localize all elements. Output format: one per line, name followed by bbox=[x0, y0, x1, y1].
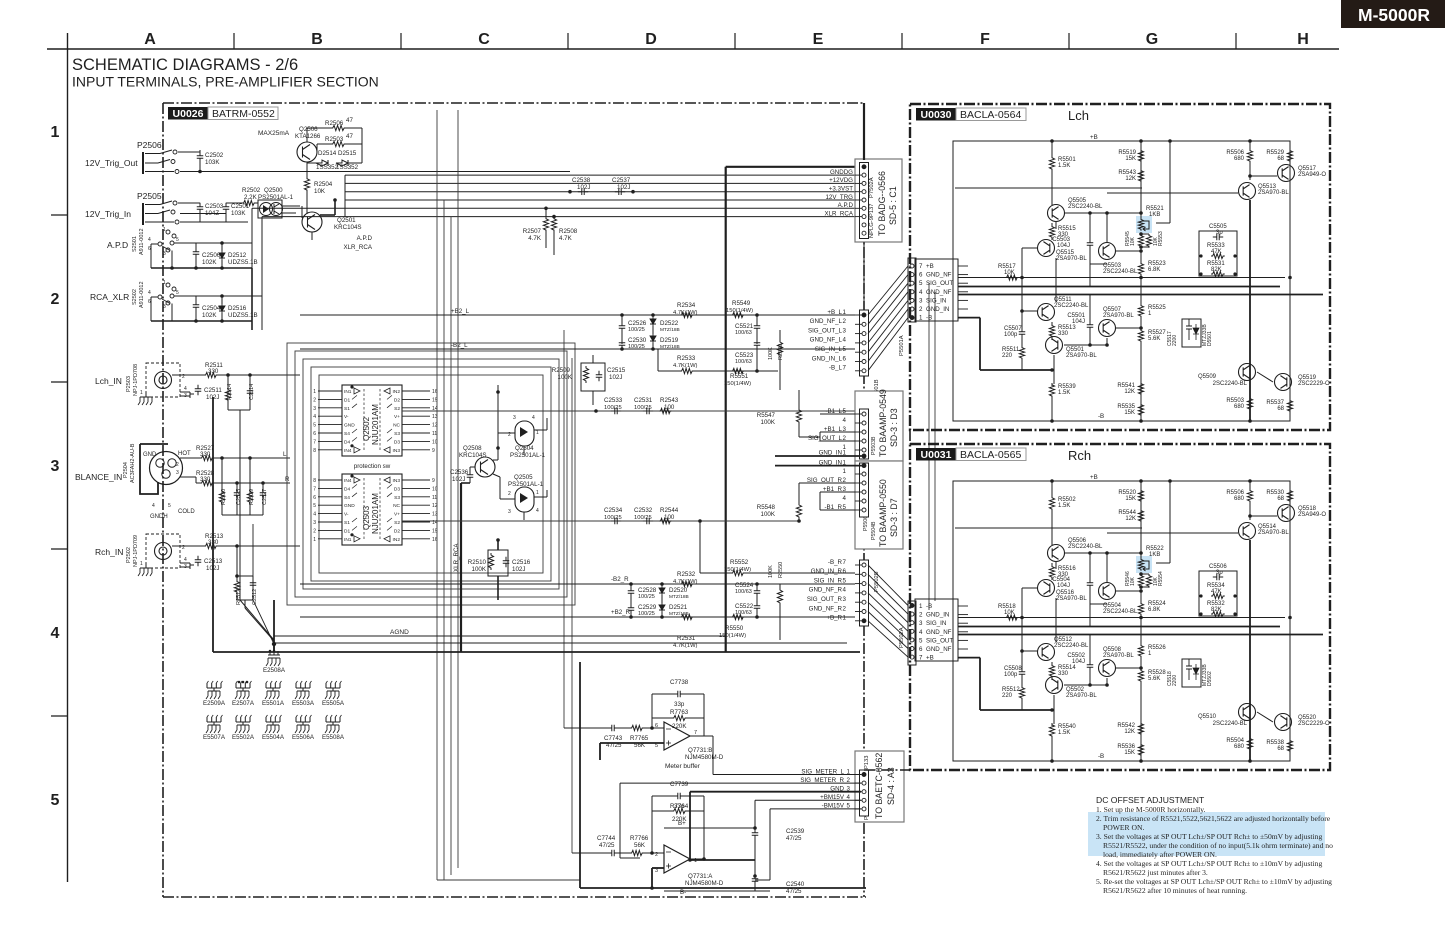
svg-text:5. Re-set the voltages at SP O: 5. Re-set the voltages at SP OUT Lch±/SP… bbox=[1096, 877, 1332, 886]
svg-text:15K: 15K bbox=[1124, 410, 1135, 416]
svg-text:+3.3VST: +3.3VST bbox=[829, 186, 853, 193]
wire sig lines across block bbox=[955, 527, 1142, 529]
svg-text:-B_R: -B_R bbox=[828, 559, 843, 566]
svg-text:1.5K: 1.5K bbox=[1058, 390, 1070, 396]
resistor R5525 1 bbox=[1138, 304, 1143, 318]
svg-text:150(1/4W): 150(1/4W) bbox=[726, 308, 753, 314]
transistor Q5513 2SA970-BL bbox=[1239, 183, 1256, 200]
transistor Q5507 2SA970-BL bbox=[1099, 320, 1116, 337]
resistor R5524 6.8K bbox=[1138, 602, 1143, 616]
svg-text:P7502A: P7502A bbox=[869, 177, 875, 198]
svg-text:2SC2240-BL: 2SC2240-BL bbox=[1054, 303, 1089, 309]
svg-text:9: 9 bbox=[432, 478, 435, 484]
ground E5507A bbox=[207, 717, 221, 722]
transistor Q5503 2SC2240-BL bbox=[1099, 243, 1116, 260]
board U0031 label bbox=[916, 448, 956, 461]
svg-text:12K: 12K bbox=[1125, 516, 1136, 522]
svg-text:3: 3 bbox=[843, 327, 847, 334]
svg-text:2: 2 bbox=[919, 612, 923, 619]
svg-text:100/25: 100/25 bbox=[638, 611, 655, 617]
svg-text:S3: S3 bbox=[394, 495, 400, 501]
svg-text:C2506: C2506 bbox=[202, 252, 221, 259]
svg-text:2SA970-BL: 2SA970-BL bbox=[1103, 313, 1134, 319]
svg-text:C2537: C2537 bbox=[612, 177, 631, 184]
svg-text:C2526: C2526 bbox=[628, 320, 647, 327]
svg-text:L: L bbox=[283, 451, 287, 458]
svg-text:Q2501: Q2501 bbox=[337, 217, 356, 224]
svg-text:C2534: C2534 bbox=[604, 507, 623, 514]
svg-text:F: F bbox=[980, 31, 990, 48]
svg-text:10K: 10K bbox=[314, 188, 326, 195]
svg-text:GND: GND bbox=[344, 423, 355, 429]
wire L-path y411 bbox=[402, 410, 855, 412]
svg-text:NJM4580M-D: NJM4580M-D bbox=[685, 880, 724, 887]
resistor R5506 680 bbox=[1247, 489, 1252, 503]
svg-text:6: 6 bbox=[313, 431, 316, 437]
svg-text:D2522: D2522 bbox=[660, 320, 679, 327]
svg-text:104Z: 104Z bbox=[205, 210, 219, 217]
svg-text:D1: D1 bbox=[344, 397, 350, 403]
border frame top line bbox=[47, 48, 1339, 50]
svg-text:220: 220 bbox=[1002, 693, 1013, 699]
svg-text:2: 2 bbox=[508, 491, 511, 497]
svg-text:33p: 33p bbox=[674, 701, 685, 708]
svg-text:2SC2240-BL: 2SC2240-BL bbox=[1213, 381, 1248, 387]
svg-text:3: 3 bbox=[919, 620, 923, 627]
heavy wire xlr bus bbox=[460, 483, 462, 652]
diode D2516 UDZS5.1B bbox=[219, 304, 225, 313]
svg-text:6: 6 bbox=[919, 272, 923, 279]
border frame left line bbox=[67, 33, 69, 882]
svg-text:R2533: R2533 bbox=[677, 355, 696, 362]
resistor R5501 1.5K bbox=[1049, 156, 1054, 171]
svg-text:2SC2229-O: 2SC2229-O bbox=[1298, 721, 1330, 727]
svg-text:IN4: IN4 bbox=[344, 478, 352, 484]
svg-text:12K: 12K bbox=[1124, 389, 1135, 395]
svg-text:RCA_XLR: RCA_XLR bbox=[90, 292, 129, 302]
svg-text:103K: 103K bbox=[205, 159, 220, 166]
wire rca_xlr gnd bbox=[151, 320, 252, 322]
svg-text:220K: 220K bbox=[672, 723, 687, 730]
svg-text:GNDDG: GNDDG bbox=[830, 169, 853, 176]
svg-text:E5503A: E5503A bbox=[292, 700, 315, 707]
transistor Q5520 2SC2229-O bbox=[1275, 714, 1292, 731]
transistor Q5512 2SC2240-BL bbox=[1038, 644, 1055, 661]
svg-text:-B_L: -B_L bbox=[829, 365, 843, 372]
svg-text:1: 1 bbox=[140, 561, 143, 567]
svg-text:R7766: R7766 bbox=[630, 835, 649, 842]
svg-text:2SC2240-BL: 2SC2240-BL bbox=[1103, 269, 1138, 275]
svg-text:R5547: R5547 bbox=[757, 412, 776, 419]
svg-text:R2504: R2504 bbox=[314, 181, 333, 188]
svg-text:+B: +B bbox=[1090, 474, 1098, 481]
svg-text:100: 100 bbox=[664, 404, 675, 411]
svg-text:4: 4 bbox=[184, 386, 187, 392]
wire GND/BM15V bbox=[690, 791, 861, 793]
svg-text:R2508: R2508 bbox=[559, 228, 578, 235]
resistor R5513 330 bbox=[1049, 324, 1054, 338]
svg-text:5: 5 bbox=[843, 577, 847, 584]
svg-text:R2502: R2502 bbox=[242, 187, 261, 194]
svg-text:2SA949-O: 2SA949-O bbox=[1298, 172, 1326, 178]
svg-text:GND: GND bbox=[143, 452, 157, 458]
resistor R5540 1.5K bbox=[1049, 723, 1054, 738]
svg-text:2SC2240-BL: 2SC2240-BL bbox=[1068, 544, 1103, 550]
svg-text:GND_NF: GND_NF bbox=[926, 629, 952, 636]
wires protection center bbox=[497, 385, 499, 448]
svg-text:104J: 104J bbox=[1057, 583, 1070, 589]
svg-text:2: 2 bbox=[176, 462, 179, 468]
svg-text:6.8K: 6.8K bbox=[1148, 607, 1160, 613]
svg-text:B: B bbox=[311, 31, 323, 48]
svg-text:100K: 100K bbox=[768, 565, 774, 578]
svg-text:+B: +B bbox=[926, 263, 934, 270]
svg-text:UDZS5.1B: UDZS5.1B bbox=[228, 312, 258, 319]
resistor R5516 330 bbox=[1049, 565, 1054, 579]
svg-text:P5504B: P5504B bbox=[871, 521, 877, 540]
svg-text:7: 7 bbox=[313, 439, 316, 445]
wire apd gnd bbox=[151, 267, 252, 269]
svg-text:GND_IN_L: GND_IN_L bbox=[812, 355, 843, 362]
svg-text:102J: 102J bbox=[512, 566, 525, 573]
svg-text:-B2_L: -B2_L bbox=[451, 342, 468, 349]
svg-text:100/25: 100/25 bbox=[604, 405, 622, 411]
svg-text:TO BAETC-0562: TO BAETC-0562 bbox=[874, 753, 884, 819]
ground E2509A bbox=[207, 683, 221, 688]
svg-text:5.6K: 5.6K bbox=[1148, 336, 1160, 342]
svg-text:5: 5 bbox=[655, 743, 658, 749]
connector group TO BAAMP-0550 SD-3:D7 bbox=[855, 461, 903, 549]
svg-text:R2544: R2544 bbox=[660, 507, 679, 514]
svg-text:R5621/R5622 just minutes after: R5621/R5622 just minutes after 3. bbox=[1103, 868, 1208, 877]
svg-text:GND_IN_R: GND_IN_R bbox=[811, 568, 843, 575]
svg-text:2SA970-BL: 2SA970-BL bbox=[1066, 693, 1097, 699]
board U0030 label bbox=[916, 108, 956, 121]
svg-text:E5507A: E5507A bbox=[203, 734, 226, 741]
svg-text:XLR_RCA: XLR_RCA bbox=[453, 543, 460, 572]
svg-text:DC OFFSET ADJUSTMENT: DC OFFSET ADJUSTMENT bbox=[1096, 795, 1205, 805]
svg-text:AGND: AGND bbox=[390, 629, 409, 636]
svg-text:3: 3 bbox=[919, 297, 923, 304]
zener diode D5502 MTZJ33B bbox=[1193, 664, 1199, 680]
svg-text:2SA949-O: 2SA949-O bbox=[1298, 512, 1326, 518]
svg-text:2: 2 bbox=[843, 605, 847, 612]
svg-text:Q5510: Q5510 bbox=[1198, 714, 1217, 720]
svg-text:5: 5 bbox=[919, 280, 923, 287]
svg-text:MTZ/18B: MTZ/18B bbox=[660, 327, 680, 333]
svg-text:C5523: C5523 bbox=[735, 352, 754, 359]
svg-text:1: 1 bbox=[536, 430, 539, 436]
svg-text:+B2_L: +B2_L bbox=[451, 308, 470, 315]
svg-text:D4: D4 bbox=[344, 439, 350, 445]
svg-text:D2: D2 bbox=[394, 397, 400, 403]
trimmer R5521 1KB (highlighted) bbox=[1136, 216, 1152, 233]
ground at Rch_IN bbox=[145, 563, 147, 568]
board U0026 label bbox=[168, 107, 208, 120]
svg-text:4: 4 bbox=[51, 625, 60, 642]
svg-text:E5508A: E5508A bbox=[322, 734, 345, 741]
svg-text:SIG_IN_R: SIG_IN_R bbox=[814, 577, 843, 584]
svg-text:load, immediately after POWER: load, immediately after POWER ON. bbox=[1103, 850, 1217, 859]
ground E5502A bbox=[236, 717, 250, 722]
svg-text:R5545: R5545 bbox=[1125, 231, 1131, 246]
svg-text:SIG_OUT_R: SIG_OUT_R bbox=[807, 596, 843, 603]
svg-text:1: 1 bbox=[163, 280, 166, 286]
wire diagonals P5502B to P5502A bbox=[868, 565, 908, 606]
svg-text:IN2: IN2 bbox=[393, 537, 401, 543]
ground E5508A bbox=[326, 717, 340, 722]
svg-text:2SA970-BL: 2SA970-BL bbox=[1056, 596, 1087, 602]
svg-text:KTA1266: KTA1266 bbox=[295, 133, 321, 140]
resistor R5529 68 bbox=[1287, 149, 1292, 163]
svg-text:TO BAAMP-0550: TO BAAMP-0550 bbox=[878, 479, 888, 547]
resistor R5514 330 bbox=[1049, 664, 1054, 678]
svg-text:NC: NC bbox=[393, 423, 400, 429]
svg-text:5: 5 bbox=[51, 792, 60, 809]
wire +in A bbox=[652, 867, 664, 869]
svg-text:5: 5 bbox=[176, 237, 179, 243]
wire diagonals P5501B to P5501A bbox=[868, 266, 908, 315]
svg-text:TO BADG--0566: TO BADG--0566 bbox=[877, 171, 887, 236]
wire routing loops around NJU201AM ICs bbox=[287, 343, 575, 605]
svg-text:SD-3 : D7: SD-3 : D7 bbox=[889, 498, 899, 537]
svg-text:2: 2 bbox=[313, 528, 316, 534]
svg-text:P5502A: P5502A bbox=[899, 627, 905, 648]
svg-text:GND_NF_R: GND_NF_R bbox=[809, 587, 843, 594]
svg-text:47: 47 bbox=[346, 133, 353, 140]
svg-text:+B_R: +B_R bbox=[826, 615, 842, 622]
svg-text:7: 7 bbox=[694, 730, 697, 736]
svg-text:NC: NC bbox=[393, 503, 400, 509]
wire +in bbox=[600, 742, 664, 744]
wire trig in bbox=[178, 202, 200, 204]
svg-text:V-: V- bbox=[344, 414, 349, 420]
transistor Q5516 2SA970-BL bbox=[1038, 580, 1055, 597]
svg-text:-B: -B bbox=[1098, 753, 1104, 760]
wire opamp B out bbox=[690, 735, 713, 737]
wire bus GNDDG..XLR_RCA bbox=[345, 174, 855, 176]
svg-text:56K: 56K bbox=[634, 842, 646, 849]
svg-text:S2: S2 bbox=[394, 406, 400, 412]
ground E5503A bbox=[296, 683, 310, 688]
svg-text:104J: 104J bbox=[1057, 243, 1070, 249]
ground E5506A bbox=[296, 717, 310, 722]
svg-text:C5518: C5518 bbox=[1167, 671, 1173, 686]
connector P5501A pin labels bbox=[915, 259, 958, 321]
capacitor C2501 103K bbox=[223, 203, 230, 213]
ground E5501A bbox=[266, 683, 280, 688]
svg-text:S2502: S2502 bbox=[132, 289, 138, 305]
svg-text:GND_NF_L: GND_NF_L bbox=[810, 318, 843, 325]
svg-text:9: 9 bbox=[432, 448, 435, 454]
svg-text:5: 5 bbox=[168, 503, 171, 509]
svg-text:SIG_OUT_L: SIG_OUT_L bbox=[808, 327, 843, 334]
wire internals bbox=[1051, 170, 1053, 205]
svg-text:BATRM-0552: BATRM-0552 bbox=[212, 108, 275, 120]
svg-text:GND_NF_R: GND_NF_R bbox=[809, 605, 843, 612]
svg-text:IN3: IN3 bbox=[393, 448, 401, 454]
svg-text:D2514: D2514 bbox=[318, 150, 337, 157]
svg-text:2SC2240-BL: 2SC2240-BL bbox=[1068, 204, 1103, 210]
svg-text:47: 47 bbox=[346, 117, 353, 124]
svg-text:D2515: D2515 bbox=[338, 150, 357, 157]
svg-text:C2504: C2504 bbox=[202, 305, 221, 312]
svg-text:D: D bbox=[645, 31, 657, 48]
svg-text:3: 3 bbox=[51, 458, 60, 475]
svg-text:4: 4 bbox=[184, 557, 187, 563]
svg-text:U0030: U0030 bbox=[921, 109, 952, 121]
wire heavy E-line bbox=[725, 167, 727, 652]
svg-text:1. Set up the M-5000R horizont: 1. Set up the M-5000R horizontally. bbox=[1096, 805, 1205, 814]
svg-text:S2: S2 bbox=[394, 520, 400, 526]
svg-text:R5553: R5553 bbox=[1158, 231, 1164, 246]
svg-text:TO BAAMP-0549: TO BAAMP-0549 bbox=[878, 389, 888, 457]
svg-text:protection sw: protection sw bbox=[354, 463, 391, 470]
svg-text:Q2508: Q2508 bbox=[463, 445, 482, 452]
svg-text:+B: +B bbox=[926, 655, 934, 662]
svg-text:12V_TRG: 12V_TRG bbox=[825, 194, 853, 201]
svg-text:GND: GND bbox=[344, 503, 355, 509]
svg-text:SD-4 : A3: SD-4 : A3 bbox=[886, 767, 896, 805]
svg-text:5.6K: 5.6K bbox=[1148, 676, 1160, 682]
resistor R5515 330 bbox=[1049, 225, 1054, 239]
svg-text:C7744: C7744 bbox=[597, 835, 616, 842]
svg-text:NJM4580M-D: NJM4580M-D bbox=[685, 754, 724, 761]
svg-text:R5521/R5522, under the conditi: R5521/R5522, under the condition of no i… bbox=[1103, 841, 1333, 850]
resistor R5502 1.5K bbox=[1049, 496, 1054, 511]
svg-text:4: 4 bbox=[148, 290, 151, 296]
svg-text:P2506: P2506 bbox=[137, 140, 162, 150]
svg-text:+12VDG: +12VDG bbox=[829, 177, 853, 184]
svg-text:C: C bbox=[478, 31, 490, 48]
svg-text:R5554: R5554 bbox=[1158, 571, 1164, 586]
svg-text:-B: -B bbox=[1098, 413, 1104, 420]
svg-text:1: 1 bbox=[843, 450, 847, 457]
svg-text:8: 8 bbox=[313, 478, 316, 484]
svg-text:2SA970-BL: 2SA970-BL bbox=[1056, 256, 1087, 262]
svg-text:C2536: C2536 bbox=[450, 469, 469, 476]
svg-text:R2507: R2507 bbox=[523, 228, 542, 235]
svg-text:R7763: R7763 bbox=[670, 709, 689, 716]
svg-text:U0031: U0031 bbox=[921, 449, 952, 461]
svg-text:XLR_RCA: XLR_RCA bbox=[343, 244, 372, 251]
resistor R5528 5.6K bbox=[1138, 669, 1143, 683]
svg-text:5: 5 bbox=[919, 637, 923, 644]
svg-text:SCHEMATIC DIAGRAMS - 2/6: SCHEMATIC DIAGRAMS - 2/6 bbox=[72, 56, 298, 74]
svg-text:150(1/4W): 150(1/4W) bbox=[724, 381, 751, 387]
model number plate M-5000R bbox=[1341, 0, 1445, 28]
svg-text:GND_NF: GND_NF bbox=[926, 646, 952, 653]
svg-text:GND_IN: GND_IN bbox=[819, 450, 842, 457]
resistor R5504 680 bbox=[1247, 737, 1252, 751]
svg-text:SIG_OUT: SIG_OUT bbox=[926, 637, 953, 644]
svg-text:680: 680 bbox=[1234, 496, 1245, 502]
svg-text:6.8K: 6.8K bbox=[1148, 267, 1160, 273]
svg-text:330: 330 bbox=[1058, 671, 1069, 677]
svg-text:1KB: 1KB bbox=[1149, 212, 1160, 218]
svg-text:D2516: D2516 bbox=[228, 305, 247, 312]
svg-text:4: 4 bbox=[148, 237, 151, 243]
transistor Q5511 2SC2240-BL bbox=[1038, 304, 1055, 321]
svg-text:S1: S1 bbox=[344, 406, 350, 412]
svg-text:MAX25mA: MAX25mA bbox=[258, 130, 290, 137]
svg-text:15K: 15K bbox=[1124, 750, 1135, 756]
svg-text:SIG_IN: SIG_IN bbox=[926, 620, 946, 627]
svg-text:4: 4 bbox=[152, 503, 155, 509]
svg-text:V-: V- bbox=[344, 512, 349, 518]
svg-text:1.5K: 1.5K bbox=[1058, 730, 1070, 736]
svg-text:330: 330 bbox=[1058, 331, 1069, 337]
resistor R5539 1.5K bbox=[1049, 383, 1054, 398]
svg-text:IN4: IN4 bbox=[344, 448, 352, 454]
svg-text:1: 1 bbox=[919, 315, 923, 322]
svg-text:D2: D2 bbox=[394, 528, 400, 534]
svg-text:KRC104S: KRC104S bbox=[334, 224, 362, 231]
svg-text:S4: S4 bbox=[344, 495, 350, 501]
capacitor C2539 47/25 bbox=[752, 829, 759, 839]
svg-text:+B: +B bbox=[1090, 134, 1098, 141]
svg-text:C5524: C5524 bbox=[735, 582, 754, 589]
svg-text:Rch: Rch bbox=[1068, 448, 1091, 463]
svg-text:680: 680 bbox=[1234, 744, 1245, 750]
svg-text:D2512: D2512 bbox=[228, 252, 247, 259]
svg-text:68: 68 bbox=[1277, 746, 1284, 752]
transistor Q5504 2SC2240-BL bbox=[1099, 583, 1116, 600]
svg-text:100K: 100K bbox=[761, 511, 776, 518]
svg-text:2SC2240-BL: 2SC2240-BL bbox=[1054, 643, 1089, 649]
svg-text:4: 4 bbox=[532, 415, 535, 421]
svg-text:4.7K(1W): 4.7K(1W) bbox=[673, 363, 698, 369]
svg-text:10K: 10K bbox=[1004, 270, 1015, 276]
svg-text:E5506A: E5506A bbox=[292, 734, 315, 741]
svg-text:D2521: D2521 bbox=[669, 604, 688, 611]
trimmer R5522 1KB (highlighted) bbox=[1136, 556, 1152, 573]
connector P7701B TO BAETC-0562 bbox=[855, 751, 904, 822]
svg-text:100/63: 100/63 bbox=[735, 589, 752, 595]
svg-text:B-: B- bbox=[680, 889, 686, 896]
svg-text:P2503: P2503 bbox=[126, 376, 132, 392]
wire RCA_XLR row bbox=[174, 295, 196, 297]
IC Q2502 NJU201AM bbox=[342, 385, 402, 456]
capacitor C2504 102K bbox=[193, 301, 200, 311]
svg-text:MTZ/18B: MTZ/18B bbox=[660, 344, 680, 350]
svg-text:2: 2 bbox=[919, 306, 923, 313]
svg-text:R2510: R2510 bbox=[468, 559, 487, 566]
board U0031 BACLA-0565 dash-dot outline bbox=[910, 444, 1330, 770]
resistor R2509 100K bbox=[581, 363, 605, 391]
svg-text:1: 1 bbox=[843, 615, 847, 622]
svg-text:100/25: 100/25 bbox=[638, 594, 655, 600]
svg-text:68: 68 bbox=[1277, 156, 1284, 162]
ground E5505A bbox=[326, 683, 340, 688]
svg-text:2SC2229-O: 2SC2229-O bbox=[1298, 381, 1330, 387]
svg-text:SIG_OUT: SIG_OUT bbox=[926, 280, 953, 287]
wire opto to Q2501 bbox=[282, 205, 300, 207]
wire A.P.D row bbox=[174, 242, 196, 244]
capacitor C2515 102J bbox=[596, 371, 603, 381]
resistor R5535 15K bbox=[1138, 403, 1143, 417]
svg-text:V+: V+ bbox=[394, 512, 400, 518]
svg-text:7: 7 bbox=[313, 486, 316, 492]
svg-text:R5548: R5548 bbox=[757, 504, 776, 511]
capacitor C2506 102K bbox=[193, 248, 200, 258]
transistor Q5519 2SC2229-O bbox=[1275, 374, 1292, 391]
transistor Q5510 2SC2240-BL bbox=[1239, 704, 1256, 721]
wire meter box vertical bbox=[579, 662, 581, 888]
svg-text:4.7K: 4.7K bbox=[559, 235, 573, 242]
svg-text:100K: 100K bbox=[558, 374, 573, 381]
svg-text:R5621/R5622 after 10 minutes o: R5621/R5622 after 10 minutes of heat run… bbox=[1103, 886, 1247, 895]
